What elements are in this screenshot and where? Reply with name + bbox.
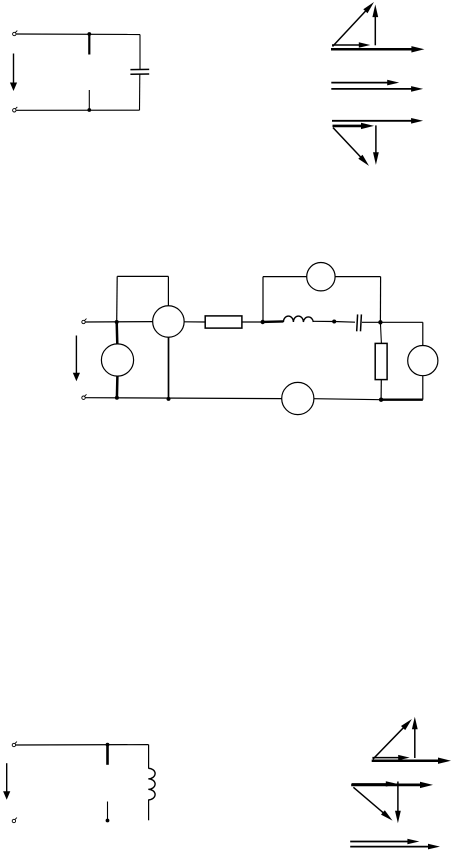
wire capacitor branch lower: [139, 74, 141, 110]
wire right branch upper: [148, 745, 150, 769]
inductor L2 vertical: [148, 768, 155, 800]
ammeter A2 on bottom wire: [282, 382, 314, 414]
wire capacitor to junction: [362, 321, 380, 323]
phasor diagonal arrow: [333, 2, 375, 47]
node junction top: [106, 743, 110, 747]
voltmeter V2: [307, 263, 335, 291]
wire junction to capacitor: [334, 321, 355, 324]
phasor arrow short: [350, 839, 419, 845]
inductor L1: [283, 316, 313, 322]
wire ammeter to resistor: [184, 321, 205, 323]
phasor arrow short: [331, 80, 399, 86]
phasor vertical arrow up: [372, 5, 378, 46]
wire loop2 left vertical: [262, 277, 264, 322]
wire thick stub below junction: [106, 745, 109, 765]
wire right branch lower: [148, 800, 150, 821]
wire top: [16, 744, 149, 746]
wire below ammeter: [168, 337, 170, 399]
wire junction to R2: [380, 322, 381, 343]
wire bottom-left segment: [85, 397, 281, 400]
node junction bottom 1: [115, 396, 119, 400]
phasor vertical arrow down: [395, 782, 401, 824]
phasor arrow long: [331, 86, 423, 92]
phasor vertical arrow up: [412, 717, 418, 758]
node junction right: [378, 320, 382, 324]
node dot lower: [106, 819, 110, 823]
voltage arrow bottom: [3, 763, 10, 800]
wire coil to junction: [313, 320, 334, 322]
phasor thin short arrow: [352, 781, 397, 786]
voltmeter V1: [101, 344, 133, 376]
wire loop top horizontal: [117, 275, 168, 277]
wire source bottom vertical: [422, 376, 424, 400]
terminal bottom circuit bottom: [12, 818, 17, 823]
phasor thin short arrow: [372, 755, 409, 760]
terminal bottom circuit top: [12, 742, 17, 747]
phasor arrow long: [350, 844, 440, 850]
wire loop2 top right segment: [335, 276, 381, 278]
wire thick stub to coil: [263, 320, 284, 323]
wire loop left vertical: [116, 276, 119, 322]
wire top-left segment: [85, 321, 152, 323]
capacitor C1: [130, 69, 149, 74]
wire thick stub below top junction: [88, 34, 90, 55]
phasor I thin short arrow: [332, 42, 370, 47]
wire thin stub lower: [107, 802, 109, 821]
terminal bottom-left: [13, 107, 18, 112]
capacitor C2: [357, 314, 362, 331]
wire source top vertical: [422, 322, 424, 345]
node junction bottom right: [379, 398, 383, 402]
node junction top: [87, 32, 91, 36]
source G: [408, 346, 438, 376]
wire top: [16, 33, 140, 36]
node junction after coil: [332, 320, 336, 324]
terminal middle top: [82, 319, 87, 324]
phasor thin long arrow: [332, 118, 423, 124]
wire junction to source top: [380, 321, 422, 323]
phasor thick short arrow: [333, 123, 375, 129]
wire thick below voltmeter: [116, 376, 119, 398]
phasor U thick long arrow: [331, 46, 424, 52]
phasor diagonal arrow up: [373, 719, 412, 759]
node junction after resistor: [261, 320, 265, 324]
resistor R1: [205, 316, 242, 328]
resistor R2 vertical: [375, 343, 387, 379]
wire resistor to junction: [242, 321, 263, 323]
wire below R2: [380, 380, 382, 400]
wire loop2 top left segment: [263, 276, 307, 278]
wire thin stub above bottom junction: [88, 90, 90, 110]
wire bottom middle segment: [314, 399, 381, 400]
terminal top-left: [13, 31, 18, 36]
phasor diagonal arrow down: [333, 128, 369, 166]
phasor diagonal arrow down: [353, 787, 392, 820]
wire loop right vertical: [167, 276, 169, 305]
phasor thick long arrow: [372, 758, 451, 764]
wire thick bottom right: [381, 399, 423, 401]
voltage arrow: [10, 54, 17, 92]
voltage arrow middle: [73, 336, 80, 382]
node junction bottom 2: [167, 397, 171, 401]
wire thick above voltmeter: [115, 322, 118, 344]
node junction left top: [115, 320, 119, 324]
node junction bottom: [87, 108, 91, 112]
wire loop2 right vertical: [379, 277, 381, 323]
wire capacitor branch upper: [139, 35, 141, 70]
phasor vertical arrow down: [373, 125, 379, 164]
ammeter A1: [153, 306, 185, 338]
wire bottom: [16, 109, 139, 111]
phasor thick long arrow: [351, 782, 433, 788]
terminal middle bottom: [82, 394, 87, 399]
